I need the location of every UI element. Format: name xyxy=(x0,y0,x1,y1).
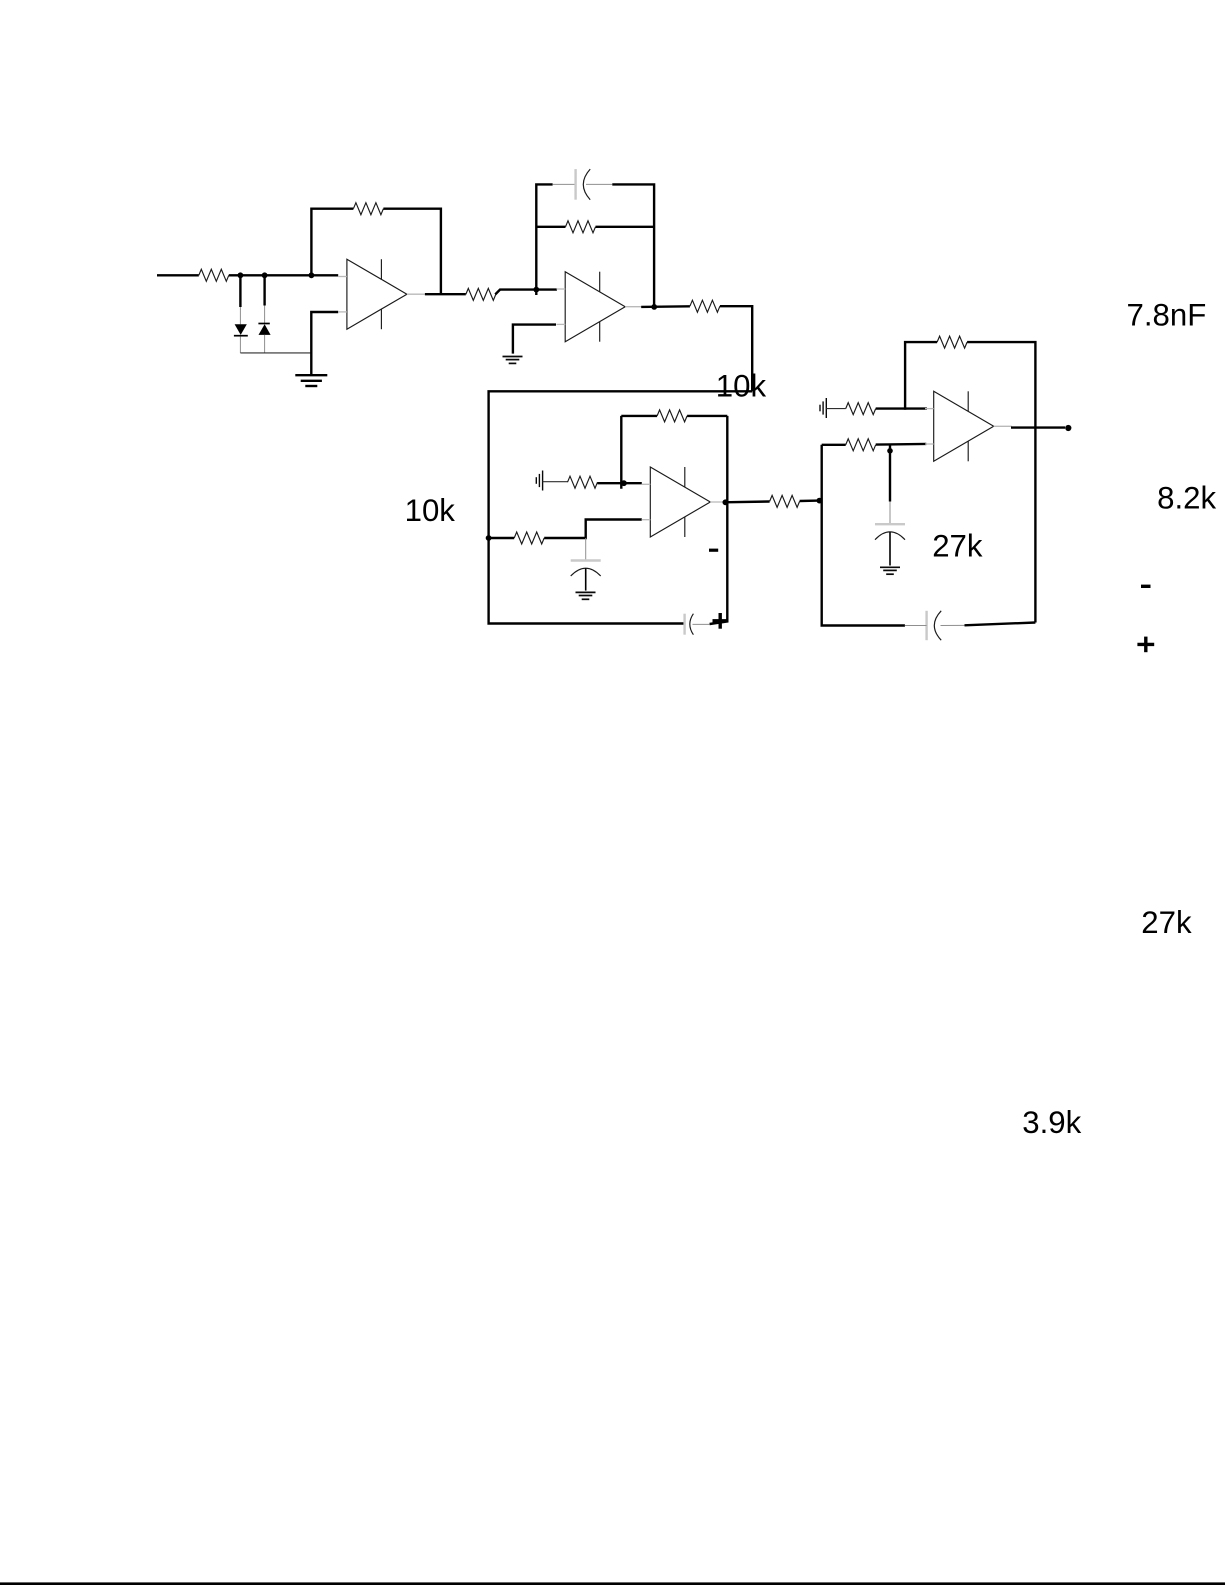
resistor R3 interstage series xyxy=(466,288,496,300)
wire sideways ground to R11 xyxy=(826,408,845,410)
svg-text:27k: 27k xyxy=(932,528,983,563)
label 7.8nF xyxy=(1127,298,1207,333)
diode D1 clamp cathode-down xyxy=(234,307,248,353)
capacitor C1 feedback xyxy=(576,169,591,200)
resistor R11 inverting bias U4 xyxy=(846,403,876,415)
ground earth symbol stage 1 xyxy=(295,375,327,386)
capacitor C4 shunt xyxy=(875,524,905,540)
node junction dot U3 output xyxy=(723,499,729,505)
wire R7 to U3 inverting input xyxy=(598,482,642,484)
wire diode D1 upper lead xyxy=(239,275,241,307)
wire diode D2 upper lead xyxy=(263,275,265,305)
wire sideways ground to R7 xyxy=(543,481,568,483)
wire capacitor C5 left lead xyxy=(905,625,927,627)
resistor R5 10k series xyxy=(690,300,720,312)
wire feedback resistor branch right xyxy=(596,226,655,228)
wire capacitor C4 thin lead xyxy=(889,502,891,525)
wire U1 output net xyxy=(425,293,466,295)
label 10k for R5 xyxy=(716,369,767,404)
resistor R9 interstage series xyxy=(770,495,800,507)
wire R10 to U4 non-inverting input xyxy=(876,443,927,446)
wire capacitor C4 upper lead xyxy=(889,446,891,502)
label minus sign right xyxy=(1141,585,1151,588)
wire feedback left vertical U2 xyxy=(536,184,552,295)
wire U1 non-inverting input to ground xyxy=(311,312,338,375)
wire U2 output net xyxy=(641,305,690,308)
svg-text:7.8nF: 7.8nF xyxy=(1127,298,1207,333)
wire loop top and left side stage 3 xyxy=(489,391,753,623)
resistor R1 input series xyxy=(199,269,229,281)
ground earth symbol stage 2 xyxy=(503,357,523,364)
node output terminal dot xyxy=(1065,425,1071,431)
label 27k for R9 xyxy=(932,528,983,563)
wire feedback top stage 3 left part xyxy=(621,415,657,417)
ground earth symbol C3 xyxy=(576,592,596,599)
wire U4 output net xyxy=(1011,426,1065,428)
wire C1 to feedback right vertical xyxy=(612,184,654,307)
capacitor C5 loop bottom xyxy=(927,611,942,640)
node junction dot C4 tap xyxy=(887,448,893,454)
wire R1 to U1 inverting input xyxy=(229,274,338,276)
resistor R8 feedback U3 xyxy=(657,410,687,422)
wire R5 down to integrator loop xyxy=(720,306,752,391)
resistor R7 inverting bias U3 xyxy=(568,476,598,488)
label 8.2k xyxy=(1157,480,1216,515)
node junction dot diode D1 tap xyxy=(238,272,244,278)
ground earth sideways stage 4 xyxy=(820,398,826,418)
node junction dot U2 output xyxy=(651,304,657,310)
diode D2 clamp cathode-up xyxy=(258,306,270,353)
page bottom border line xyxy=(0,1582,1225,1585)
wire input net xyxy=(157,274,199,276)
wire R11 to U4 inverting input xyxy=(876,407,927,409)
wire diode return to ground rail xyxy=(240,352,311,354)
wire capacitor C1 left lead xyxy=(553,183,576,185)
label plus sign loop stage 3 xyxy=(713,613,728,629)
wire R9 to stage 4 input node xyxy=(800,499,820,502)
wire capacitor C3 top lead xyxy=(585,538,587,561)
wire capacitor C1 right lead xyxy=(586,183,612,185)
node junction dot loop left stage 3 xyxy=(486,535,492,541)
op-amp U4 xyxy=(925,391,1012,461)
wire capacitor C4 to ground xyxy=(889,532,891,565)
wire U3 output net xyxy=(723,500,770,503)
wire U2 non-inverting input to ground xyxy=(513,325,556,354)
svg-text:27k: 27k xyxy=(1141,905,1192,940)
ground earth symbol C4 xyxy=(880,567,900,574)
resistor R4 feedback U2 xyxy=(566,221,596,233)
ground earth sideways stage 3 xyxy=(536,471,542,491)
op-amp U2 xyxy=(557,272,644,342)
node junction dot stage 4 input xyxy=(817,498,823,504)
wire loop left to R10 xyxy=(822,444,846,446)
wire capacitor C3 to ground xyxy=(585,568,587,590)
wire feedback top stage 3 right part xyxy=(687,415,727,417)
label plus sign right xyxy=(1137,637,1154,653)
label 10k left of R6 xyxy=(405,493,456,528)
wire feedback right vertical U1 to output xyxy=(383,209,441,295)
wire feedback left vertical U4 xyxy=(905,342,937,410)
label minus sign loop stage 3 xyxy=(709,549,718,552)
resistor R12 feedback U4 xyxy=(937,336,967,348)
wire feedback resistor branch left xyxy=(536,226,565,228)
wire feedback left vertical U1 xyxy=(311,209,353,277)
node junction dot U3 inverting input xyxy=(621,480,627,486)
label 3.9k xyxy=(1022,1105,1081,1140)
svg-text:3.9k: 3.9k xyxy=(1022,1105,1081,1140)
wire loop left vertical stage 4 xyxy=(822,445,905,626)
resistor R6 non-inverting series U3 xyxy=(514,532,544,544)
wire loop bottom right stage 4 xyxy=(965,623,1036,626)
svg-text:8.2k: 8.2k xyxy=(1157,480,1216,515)
wire C2 right lead xyxy=(693,623,710,625)
svg-text:10k: 10k xyxy=(405,493,456,528)
wire R6 to U3 non-inverting input xyxy=(544,520,642,539)
op-amp U1 xyxy=(338,259,425,329)
op-amp U3 xyxy=(642,467,729,537)
capacitor C2 loop bottom xyxy=(685,614,694,635)
capacitor C3 shunt xyxy=(571,561,601,577)
svg-text:10k: 10k xyxy=(716,369,767,404)
node junction dot U2 inverting input xyxy=(533,287,539,293)
wire feedback left vertical U3 xyxy=(620,416,622,489)
wire R3 to U2 inverting input xyxy=(495,290,557,295)
label 27k right xyxy=(1141,905,1192,940)
resistor R2 feedback U1 xyxy=(353,203,383,215)
wire capacitor C5 right lead xyxy=(941,624,965,626)
wire loop left to R6 xyxy=(489,537,515,539)
node junction dot feedback tap xyxy=(309,272,315,278)
node junction dot diode D2 tap xyxy=(262,272,268,278)
resistor R10 non-inverting series U4 xyxy=(846,439,876,451)
wire feedback right vertical U4 xyxy=(967,342,1035,622)
wire loop bottom right to feedback vertical xyxy=(710,416,728,624)
